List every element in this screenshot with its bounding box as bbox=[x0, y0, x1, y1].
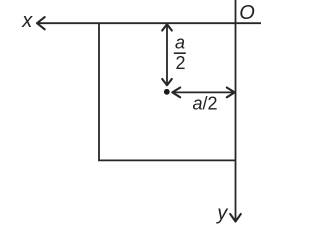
svg-text:y: y bbox=[215, 203, 228, 225]
square left edge bbox=[98, 23, 100, 160]
x-axis arrowhead bbox=[37, 17, 45, 29]
y-axis bbox=[235, 0, 237, 221]
vertical dimension arrow top head bbox=[162, 24, 172, 30]
horizontal dimension arrow shaft bbox=[173, 91, 235, 93]
vertical dimension arrow shaft bbox=[166, 25, 168, 86]
svg-text:2: 2 bbox=[176, 53, 186, 73]
svg-text:x: x bbox=[21, 10, 33, 32]
svg-text:a: a bbox=[175, 33, 185, 53]
square bottom edge bbox=[98, 159, 235, 161]
svg-text:O: O bbox=[239, 2, 255, 24]
y-axis arrowhead bbox=[230, 214, 241, 222]
x-axis bbox=[38, 22, 261, 24]
horizontal dimension arrow left head bbox=[172, 88, 180, 98]
vertical dimension arrow bottom head bbox=[162, 79, 172, 85]
svg-text:a/2: a/2 bbox=[193, 94, 218, 114]
center dot bbox=[164, 89, 170, 95]
horizontal dimension arrow right head bbox=[227, 88, 235, 98]
fraction bar bbox=[174, 52, 186, 54]
